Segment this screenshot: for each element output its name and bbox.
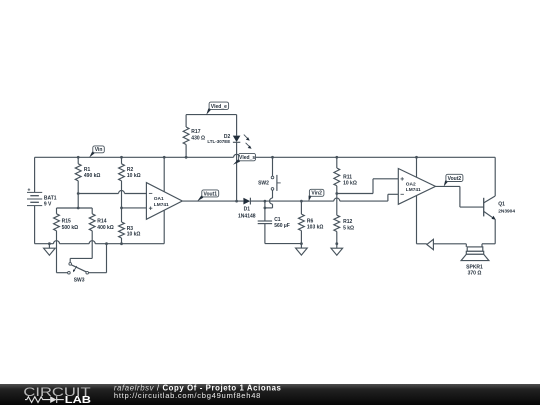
svg-text:OA1: OA1 (154, 196, 164, 202)
svg-text:Q1: Q1 (498, 202, 505, 208)
svg-text:Vin: Vin (95, 147, 103, 153)
svg-text:Vout2: Vout2 (448, 176, 462, 182)
svg-text:500 kΩ: 500 kΩ (62, 225, 79, 231)
svg-text:SW2: SW2 (258, 181, 269, 187)
svg-text:BAT1: BAT1 (44, 195, 57, 201)
svg-text:OA2: OA2 (406, 181, 416, 187)
svg-text:10 kΩ: 10 kΩ (127, 231, 141, 237)
svg-text:LTL-307EE: LTL-307EE (207, 139, 230, 144)
svg-text:R6: R6 (307, 218, 314, 224)
svg-text:Vout1: Vout1 (203, 191, 217, 197)
svg-text:R11: R11 (343, 174, 352, 180)
svg-text:SW3: SW3 (74, 278, 85, 284)
svg-text:10 kΩ: 10 kΩ (343, 181, 357, 187)
svg-text:R14: R14 (97, 219, 106, 225)
svg-text:1N4148: 1N4148 (238, 214, 256, 220)
svg-text:R15: R15 (62, 219, 71, 225)
svg-text:Vled_e: Vled_e (211, 104, 227, 110)
svg-text:+: + (28, 187, 31, 193)
svg-text:430 Ω: 430 Ω (191, 135, 205, 141)
svg-text:R12: R12 (343, 219, 352, 225)
svg-text:400 kΩ: 400 kΩ (97, 225, 114, 231)
svg-text:103 kΩ: 103 kΩ (307, 225, 324, 231)
svg-text:560 µF: 560 µF (274, 223, 290, 229)
svg-text:D1: D1 (244, 207, 251, 213)
svg-text:10 kΩ: 10 kΩ (127, 173, 141, 179)
svg-text:2N3904: 2N3904 (498, 209, 515, 215)
svg-text:9 V: 9 V (44, 201, 52, 207)
svg-text:R1: R1 (84, 167, 91, 173)
svg-text:370 Ω: 370 Ω (468, 271, 482, 277)
svg-text:R17: R17 (191, 129, 200, 135)
svg-text:5 kΩ: 5 kΩ (343, 225, 354, 231)
svg-text:Vin2: Vin2 (311, 191, 322, 197)
svg-text:R2: R2 (127, 167, 134, 173)
svg-text:Vled_s: Vled_s (239, 155, 255, 161)
svg-text:LAB: LAB (65, 394, 92, 405)
svg-text:http://circuitlab.com/cbg49umf: http://circuitlab.com/cbg49umf8eh48 (114, 391, 261, 400)
svg-text:490 kΩ: 490 kΩ (84, 173, 101, 179)
svg-text:LM741: LM741 (406, 187, 421, 193)
svg-text:LM741: LM741 (154, 202, 169, 208)
